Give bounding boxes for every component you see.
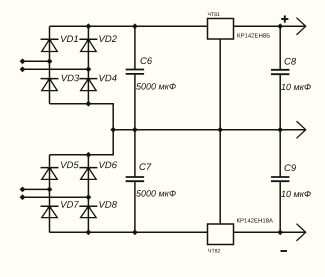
capacitor C8 plates: [271, 70, 290, 74]
wire: AC input 3 to column C: [23, 188, 50, 190]
diode VD6: [79, 168, 97, 180]
junction node: AC2 to column B: [86, 66, 92, 72]
label C6: [141, 57, 153, 64]
wire: bridge 1 column A (VD1/VD3): [49, 26, 51, 103]
junction node: AC1 to column A: [47, 58, 53, 64]
capacitor C6 plates: [126, 70, 144, 74]
terminal pin AC1: [20, 58, 26, 64]
label KP142EH18A: [237, 218, 273, 222]
junction node: column D top: [86, 152, 92, 158]
wire: regulator 2 ground pin: [219, 130, 221, 224]
capacitor C9 plates: [271, 177, 290, 181]
junction node: AC4 to column D: [86, 194, 92, 200]
junction node: - output: [277, 229, 283, 235]
wire: middle common rail: [113, 129, 306, 131]
diode VD7: [41, 206, 59, 217]
junction node: C6 top: [132, 23, 138, 29]
output arrow + terminal: [297, 18, 306, 35]
wire: AC input 1 to column A: [23, 60, 50, 62]
value 10 mkF (C8): [281, 84, 311, 90]
voltage regulator U2 (KP142EH18A) box: [208, 224, 234, 245]
label VD6: [99, 162, 117, 169]
terminal pin AC2: [20, 66, 26, 72]
output arrow common terminal: [297, 121, 306, 138]
diode VD4: [79, 79, 97, 91]
voltage regulator U1 (KP142EH8B) box: [208, 19, 234, 40]
node dot VD4: [86, 78, 90, 82]
wire: C6 branch: [134, 26, 136, 69]
label VD4: [99, 75, 116, 82]
junction node: C7 bottom: [132, 229, 138, 235]
wire: AC input 2 to column B: [23, 68, 89, 70]
plus sign at + output: [281, 15, 288, 22]
junction node: C6/C7 mid: [132, 127, 138, 133]
wire: C8 branch: [279, 26, 281, 70]
node dot VD6: [86, 167, 90, 171]
wire: bridge 2 column D (VD6/VD8): [87, 155, 89, 233]
label VD7: [61, 201, 79, 208]
wire: bridge 2 column C (VD5/VD7): [49, 155, 51, 233]
node dot VD2: [86, 38, 90, 42]
diode VD1: [41, 39, 59, 51]
diode VD3: [41, 79, 59, 91]
label VT82: [208, 249, 220, 253]
value 5000 mkF (C6): [136, 83, 176, 89]
junction node: + output: [277, 23, 283, 29]
wire: AC input 4 to column D: [23, 196, 89, 198]
junction node: regulator grounds: [217, 127, 223, 133]
wire: bridge 1 bottom rail to bridge 2 top rail: [50, 104, 114, 155]
label VD5: [61, 162, 79, 169]
junction node: AC3 to column C: [47, 187, 53, 193]
label VD3: [62, 75, 80, 82]
value 5000 mkF (C7): [136, 190, 176, 196]
label VD8: [99, 201, 117, 208]
label VT81: [208, 12, 220, 16]
terminal pin AC4: [20, 194, 26, 200]
wire: regulator 2 output to - terminal: [234, 231, 306, 233]
wire: regulator 1 output to + terminal: [234, 25, 306, 27]
diode VD8: [79, 206, 97, 217]
node dot VD5: [47, 167, 51, 171]
node dot VD3: [47, 78, 51, 82]
wire: top positive rail from bridge to regulator input: [50, 25, 208, 27]
capacitor C7 plates: [126, 177, 144, 181]
junction node: mid rail left: [110, 127, 116, 133]
wire: regulator 1 ground pin: [219, 39, 221, 130]
label VD1: [61, 36, 78, 43]
junction node: C8/C9 mid: [277, 127, 283, 133]
label C9: [285, 164, 296, 171]
label C8: [285, 58, 297, 65]
terminal pin AC3: [20, 187, 26, 193]
output arrow - terminal: [297, 224, 306, 241]
label VD2: [99, 35, 117, 42]
value 10 mkF (C9): [281, 191, 311, 197]
junction node: column D bottom: [86, 229, 92, 235]
node dot VD8: [86, 205, 90, 209]
junction node: column B top: [86, 23, 92, 29]
wire: bridge 1 column B (VD2/VD4): [87, 26, 89, 103]
node dot VD1: [47, 38, 51, 42]
label C7: [140, 163, 152, 170]
wire: C7 branch: [134, 130, 136, 177]
minus sign at - output: [281, 250, 288, 252]
wire: bottom negative rail to regulator 2 input: [50, 231, 208, 233]
wire: C9 branch: [279, 130, 281, 177]
diode VD5: [41, 168, 59, 180]
diode VD2: [79, 39, 97, 51]
node dot VD7: [47, 205, 51, 209]
label KP142EH8B: [238, 33, 270, 37]
junction node: column B bottom: [86, 101, 92, 107]
